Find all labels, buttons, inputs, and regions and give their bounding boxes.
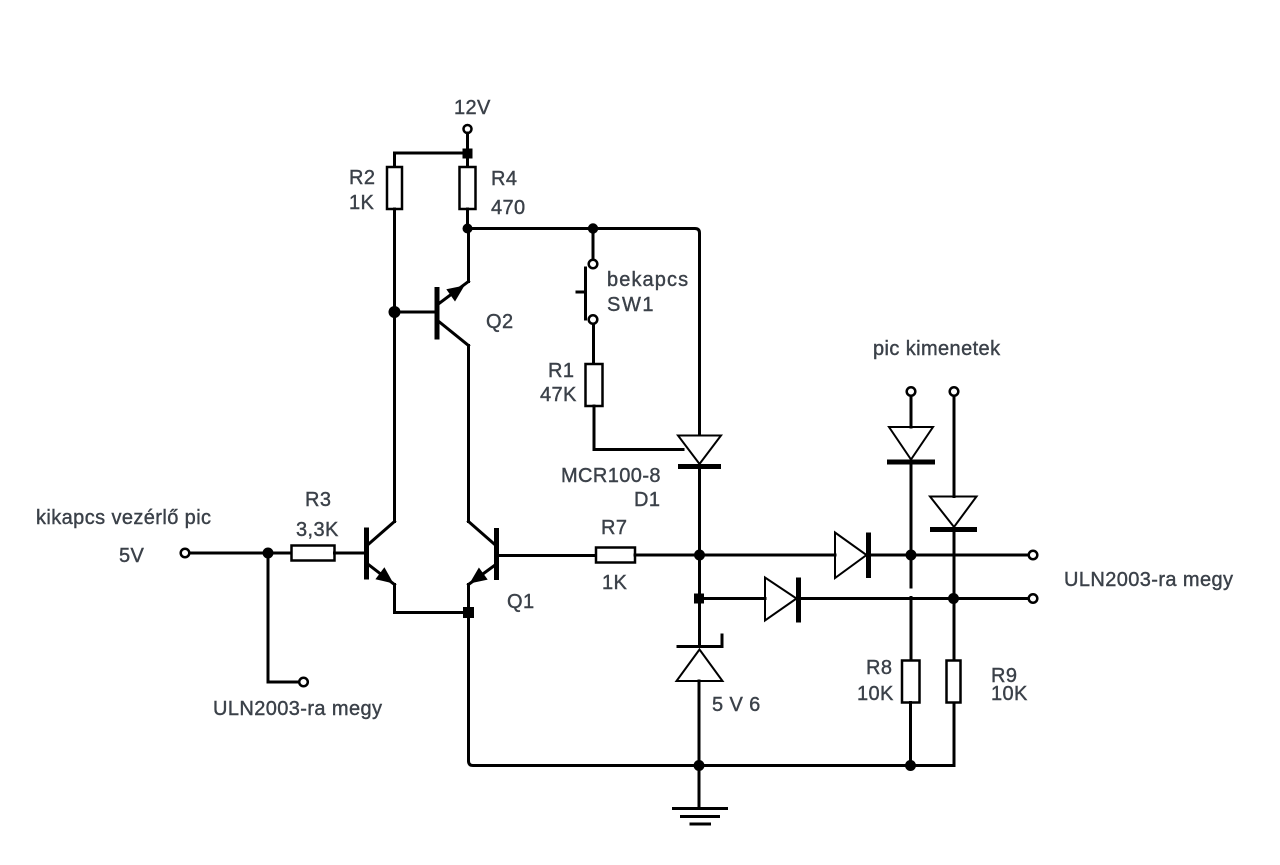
zener diode triangle: [677, 650, 723, 682]
wire SCR cathode down to line1 node: [698, 467, 701, 556]
ground bar 3: [691, 823, 710, 826]
svg-text:pic kimenetek: pic kimenetek: [873, 338, 1001, 360]
wire node to switch top contact: [592, 229, 595, 260]
svg-text:R8: R8: [866, 657, 892, 679]
svg-text:47K: 47K: [540, 384, 577, 406]
ground bar 1: [674, 807, 727, 810]
wire top horizontal node to right corner: [468, 229, 700, 436]
wire line1 node down through line2 to zener: [698, 555, 701, 647]
wire line1 node down stub: [910, 555, 913, 587]
wire line2 left segment: [699, 597, 765, 600]
switch SW1 top contact: [589, 260, 598, 269]
svg-text:D1: D1: [634, 489, 660, 511]
diode line1 triangle: [835, 533, 867, 579]
svg-text:3,3K: 3,3K: [296, 519, 339, 541]
wire Q2 top to node: [467, 229, 470, 282]
diode PIC2 cathode bar: [930, 527, 977, 532]
switch SW1 bottom contact: [589, 315, 598, 324]
svg-text:R1: R1: [548, 360, 574, 382]
junction node Q2 base: [389, 306, 401, 318]
wire R2 bottom down to left transistor collector: [393, 209, 396, 522]
diode PIC1 cathode bar: [887, 460, 935, 465]
svg-text:SW1: SW1: [607, 294, 655, 316]
junction node line2 right: [948, 593, 959, 604]
wire R4 bottom to node: [466, 209, 469, 229]
svg-text:5V: 5V: [119, 545, 145, 567]
svg-text:10K: 10K: [857, 683, 894, 705]
svg-text:1K: 1K: [349, 192, 375, 214]
terminal PIC2: [950, 387, 959, 396]
transistor Q1 emitter arrow: [470, 568, 488, 584]
wire Q1 emitter down to bottom rail: [469, 585, 955, 766]
wire R7 right to node: [635, 554, 700, 557]
wire stub to R8: [910, 598, 913, 661]
wire zener to bottom rail: [698, 681, 701, 766]
transistor Q1 collector diagonal: [469, 522, 497, 547]
terminal 12V: [464, 125, 472, 133]
junction node rail center: [694, 760, 705, 771]
svg-text:R3: R3: [305, 489, 331, 511]
thyristor D1 cathode bar: [678, 464, 721, 469]
resistor R7: [596, 548, 635, 563]
transistor QL emitter diagonal: [367, 564, 395, 585]
junction node line1 right: [906, 550, 917, 561]
terminal ULN bottom left: [299, 678, 308, 687]
terminal PIC1: [907, 387, 916, 396]
transistor Q2 top diagonal: [437, 282, 469, 306]
resistor R9: [947, 661, 961, 703]
wire switch bottom to R1: [592, 324, 595, 364]
resistor R3: [292, 546, 335, 561]
svg-text:470: 470: [491, 197, 526, 219]
resistor R2: [387, 167, 402, 209]
svg-text:12V: 12V: [454, 97, 491, 119]
ground bar 2: [682, 815, 719, 818]
svg-text:10K: 10K: [991, 683, 1028, 705]
diode line2 cathode bar: [796, 578, 801, 623]
junction node line1 center: [694, 550, 705, 561]
svg-text:bekapcs: bekapcs: [607, 269, 689, 291]
resistor R1: [586, 364, 603, 406]
wire QL emitter down and right to Q1 emitter node: [395, 585, 469, 613]
terminal OUT1: [1029, 551, 1038, 560]
wire Q1 base to R7: [497, 554, 597, 557]
diode PIC1 triangle: [889, 427, 933, 460]
wire PIC1 diode to line1: [910, 462, 913, 555]
wire 12V terminal to R4 top: [466, 133, 469, 167]
resistor R8: [902, 661, 920, 703]
svg-text:ULN2003-ra megy: ULN2003-ra megy: [1064, 569, 1233, 591]
transistor Q2 base wire: [395, 311, 438, 314]
ground stem: [698, 766, 701, 808]
wire node to diode line1: [700, 554, 836, 557]
transistor QL emitter arrow: [375, 567, 393, 583]
svg-text:ULN2003-ra megy: ULN2003-ra megy: [213, 698, 382, 720]
wire diode to node line1 right: [869, 554, 912, 557]
wire branch down to ULN output: [268, 553, 299, 682]
wire line2 right segment: [799, 597, 1030, 600]
wire PIC1 to diode: [910, 396, 913, 427]
transistor Q2 arrow: [446, 286, 464, 302]
transistor QL collector diagonal: [367, 522, 395, 546]
wire PIC2 down to diode: [953, 396, 956, 497]
wire PIC2 diode down to R9: [953, 530, 956, 661]
diode PIC2 triangle: [930, 497, 977, 528]
wire 5V terminal to R3: [190, 552, 292, 555]
resistor R4: [460, 167, 476, 209]
wire R3 to left transistor base: [335, 552, 367, 555]
transistor Q1 emitter diagonal: [469, 564, 497, 585]
svg-text:Q2: Q2: [486, 311, 513, 333]
transistor Q2 bottom diagonal: [437, 320, 469, 346]
terminal OUT2: [1029, 594, 1038, 603]
diode line1 cathode bar: [866, 533, 871, 579]
svg-text:kikapcs vezérlő pic: kikapcs vezérlő pic: [36, 507, 211, 529]
transistor QL bar: [364, 528, 369, 580]
junction node switch top: [588, 223, 598, 233]
wire R1 bottom to SCR gate: [594, 406, 683, 450]
wire R8 bottom to rail: [909, 703, 912, 766]
junction node 5V branch: [263, 548, 274, 559]
zener diode 5V6 bar: [678, 635, 722, 647]
wire Q2 bottom to Q1 collector: [467, 346, 470, 522]
transistor Q2 bar: [435, 287, 440, 340]
junction node rail R8: [905, 760, 916, 771]
thyristor D1 MCR100-8 anode triangle: [678, 436, 721, 465]
svg-text:R7: R7: [601, 517, 627, 539]
transistor Q1 bar: [494, 528, 499, 580]
junction node under R4: [463, 224, 473, 234]
svg-text:MCR100-8: MCR100-8: [561, 465, 661, 487]
switch SW1 stem: [577, 291, 586, 294]
terminal 5V input: [181, 549, 190, 558]
junction node Q1 emitter: [463, 607, 474, 618]
diode line2 triangle: [765, 578, 797, 621]
wire line1 to OUT1: [911, 554, 1029, 557]
wire branch to R2: [395, 153, 468, 167]
svg-text:1K: 1K: [602, 572, 628, 594]
svg-text:R4: R4: [491, 168, 517, 190]
junction node line2 left: [694, 594, 704, 604]
svg-text:5 V 6: 5 V 6: [712, 694, 761, 716]
svg-text:R2: R2: [349, 167, 375, 189]
switch SW1 actuator: [584, 268, 587, 319]
svg-text:Q1: Q1: [507, 591, 534, 613]
junction node below 12V: [463, 149, 473, 159]
